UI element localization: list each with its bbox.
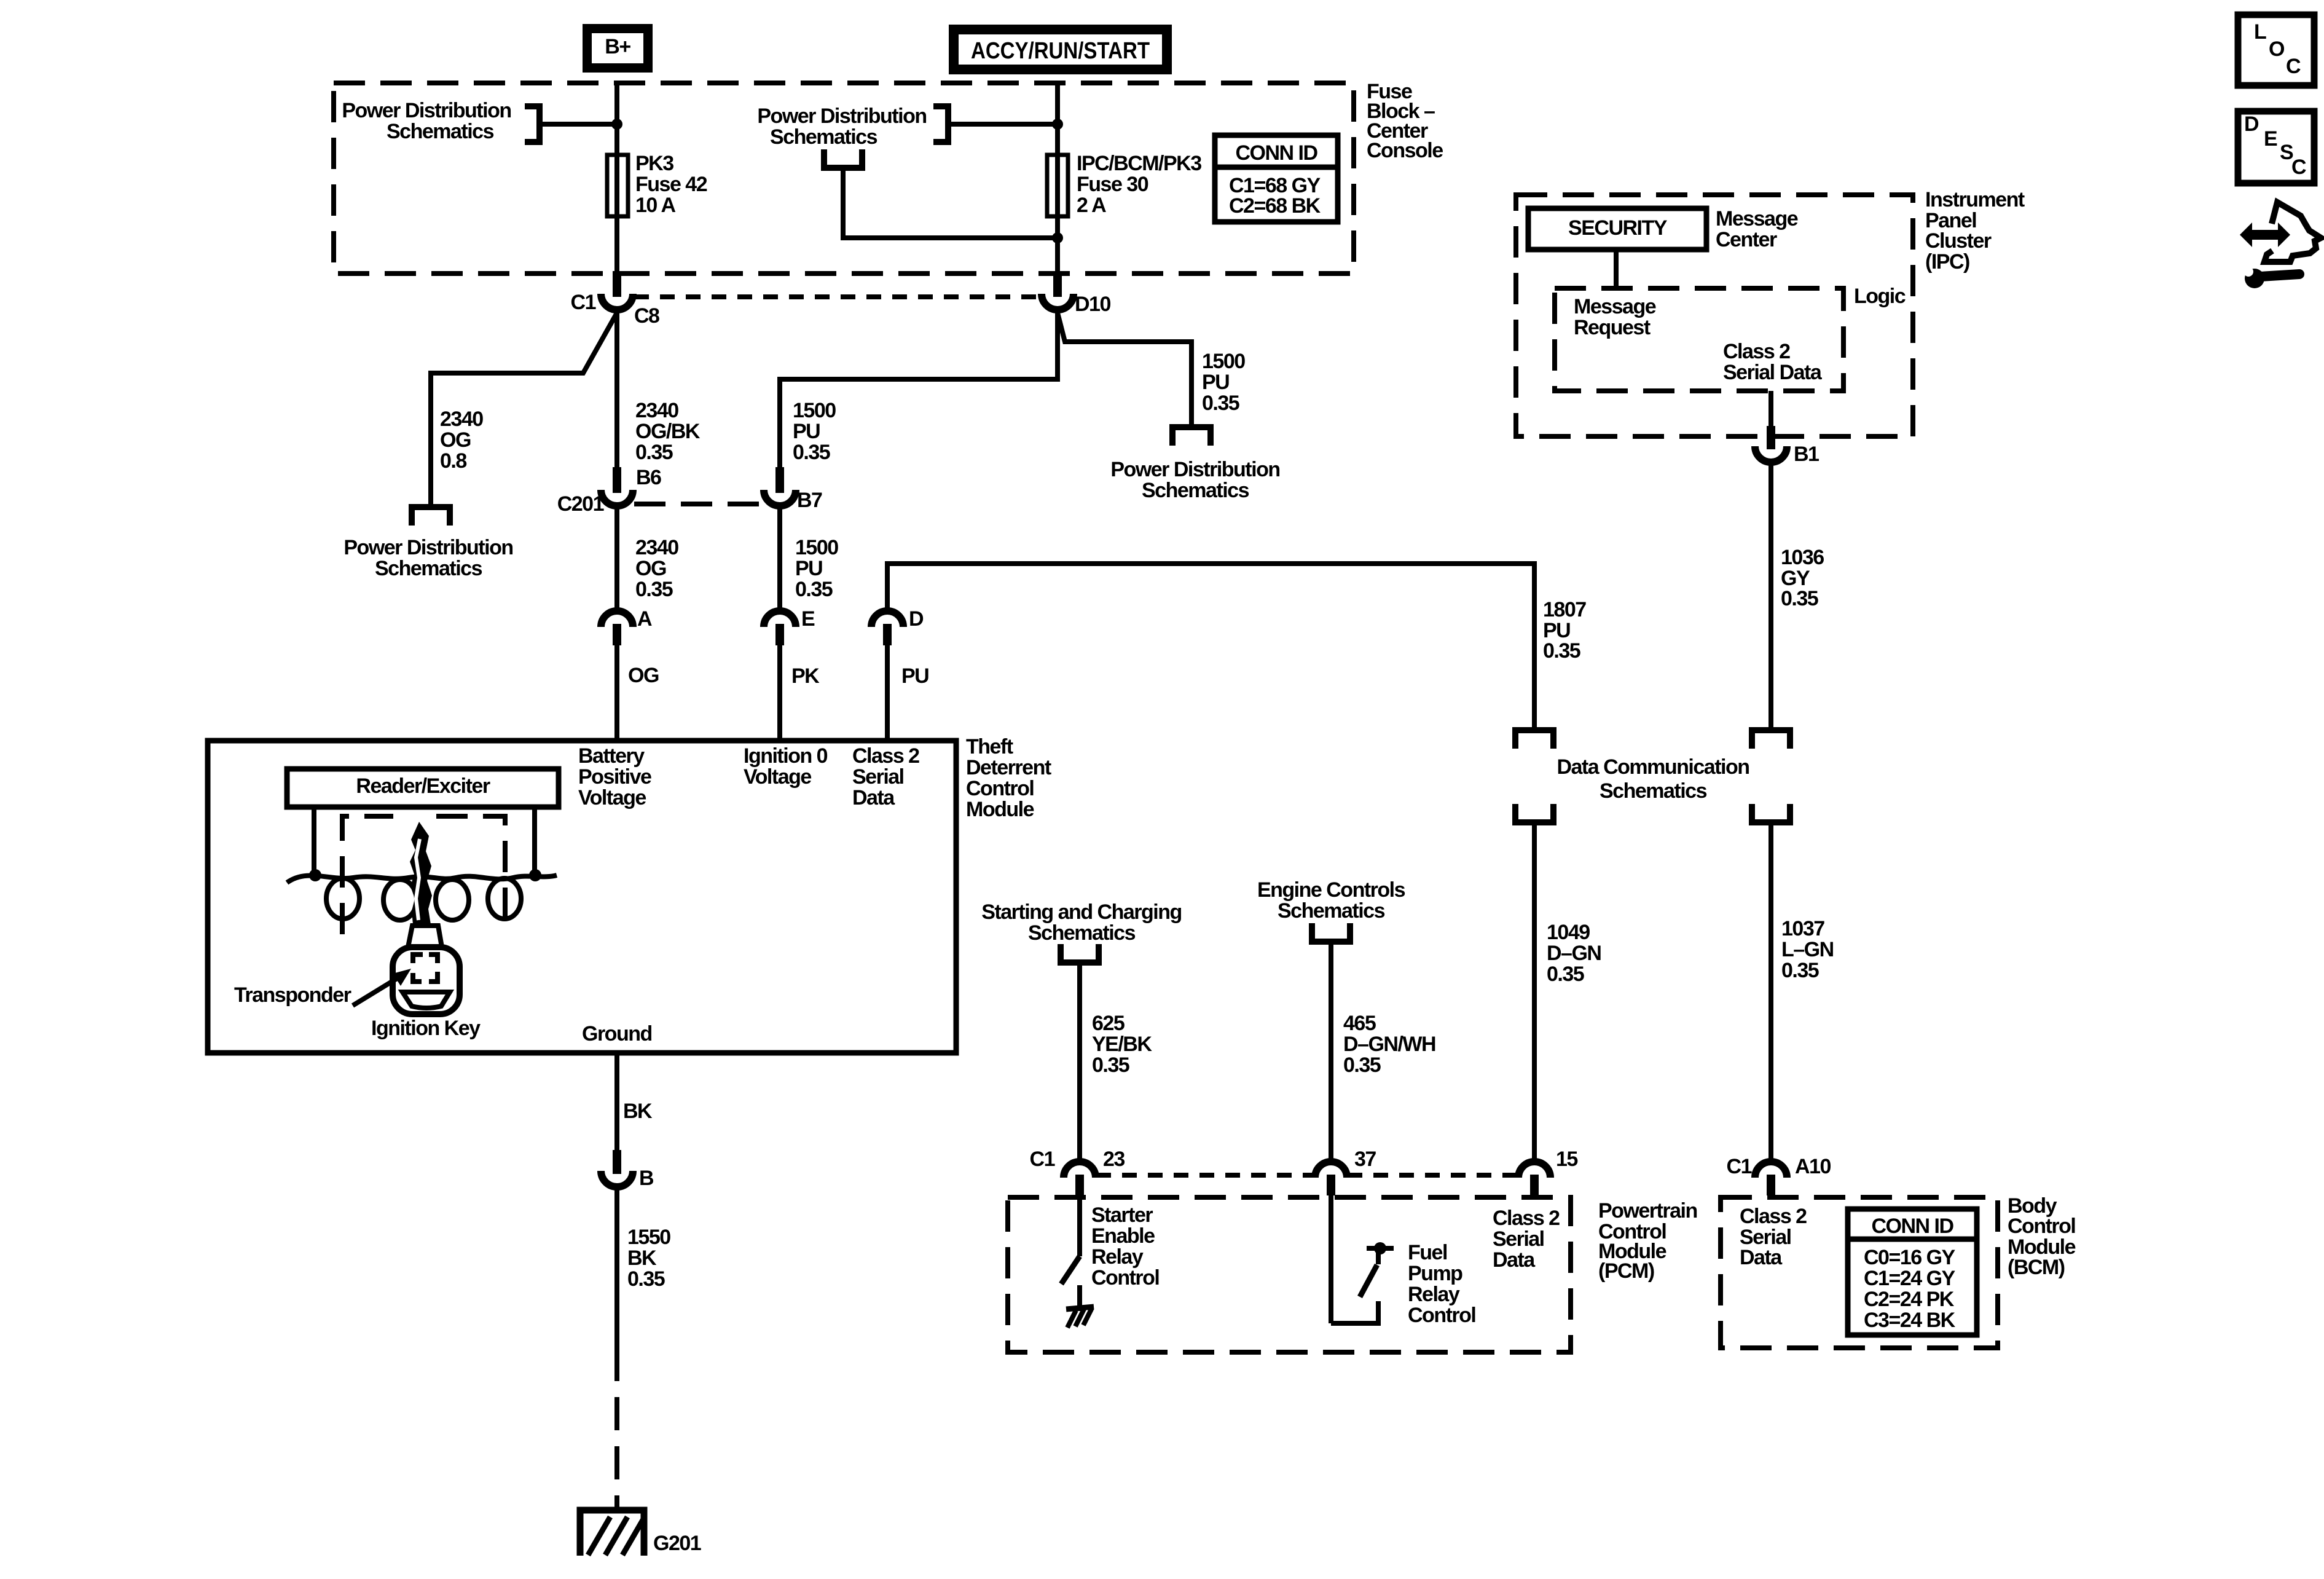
LOC legend box [2238, 15, 2314, 85]
svg-text:0.35: 0.35 [1547, 963, 1584, 986]
coil loop 1 [326, 878, 359, 919]
label 2340 OG/BK 0.35 [635, 399, 701, 464]
svg-text:(BCM): (BCM) [2008, 1256, 2065, 1279]
svg-text:B+: B+ [605, 35, 630, 58]
svg-text:D–GN/WH: D–GN/WH [1343, 1033, 1435, 1056]
svg-text:Control: Control [1091, 1266, 1159, 1290]
svg-text:Data Communication: Data Communication [1557, 755, 1749, 779]
svg-text:PU: PU [795, 557, 822, 580]
svg-text:OG: OG [635, 557, 666, 580]
ground G201 symbol [580, 1510, 645, 1556]
label Fuse Block - Center Console [1367, 80, 1443, 162]
svg-text:BK: BK [623, 1100, 653, 1123]
label 2340 OG 0.35 [635, 536, 678, 601]
wire to PCM 23 [1077, 963, 1082, 1162]
PCM dashed box [1008, 1197, 1571, 1352]
svg-text:1550: 1550 [627, 1226, 670, 1249]
svg-text:Enable: Enable [1091, 1224, 1155, 1248]
label Class 2 Serial Data (TDCM) [852, 744, 919, 809]
label Message Request [1574, 295, 1656, 339]
svg-text:E: E [801, 607, 815, 631]
label 1049 D-GN 0.35 [1547, 921, 1601, 986]
svg-text:C2=24 PK: C2=24 PK [1864, 1288, 1955, 1311]
starter enable relay switch [1061, 1195, 1080, 1311]
off-page bracket top right (1036) [1752, 730, 1790, 749]
svg-text:PK: PK [791, 664, 820, 688]
junction node left coil [309, 869, 321, 881]
svg-text:0.8: 0.8 [440, 449, 466, 473]
logic dashed box [1555, 288, 1843, 391]
svg-text:Powertrain: Powertrain [1598, 1199, 1697, 1223]
svg-text:Deterrent: Deterrent [966, 756, 1051, 779]
label Data Communication Schematics [1557, 755, 1749, 803]
svg-text:Serial: Serial [1493, 1227, 1544, 1251]
svg-text:15: 15 [1556, 1148, 1577, 1171]
connector B [601, 1150, 633, 1187]
ignition key neck [408, 926, 442, 947]
svg-text:Schematics: Schematics [387, 120, 494, 143]
label Instrument Panel Cluster (IPC) [1925, 188, 2025, 274]
svg-text:A10: A10 [1795, 1155, 1831, 1178]
svg-text:ACCY/RUN/START: ACCY/RUN/START [971, 38, 1150, 64]
off-page bracket starting [1061, 944, 1099, 963]
svg-text:0.35: 0.35 [1343, 1053, 1381, 1077]
wire left drop from Reader/Exciter [312, 807, 316, 875]
svg-text:Schematics: Schematics [770, 125, 877, 149]
svg-text:Schematics: Schematics [1278, 899, 1385, 923]
connector C201 pin B6 [601, 467, 633, 506]
wire B down [614, 1187, 619, 1348]
svg-text:Power Distribution: Power Distribution [1110, 458, 1279, 481]
svg-text:Module: Module [966, 798, 1034, 821]
svg-text:Battery: Battery [578, 744, 645, 768]
svg-text:OG: OG [440, 428, 471, 452]
label Class 2 Serial Data (PCM) [1493, 1207, 1560, 1272]
wire B+ down to C8 [614, 82, 619, 276]
svg-text:E: E [2264, 127, 2277, 151]
connector 37 [1315, 1162, 1347, 1195]
label 1036 GY 0.35 [1781, 546, 1824, 610]
wire bracket to BCM A10 [1769, 822, 1773, 1161]
svg-text:Console: Console [1367, 139, 1443, 162]
label 1807 PU 0.35 [1543, 598, 1586, 663]
svg-text:0.35: 0.35 [1781, 587, 1818, 610]
svg-text:C: C [2291, 156, 2306, 179]
svg-text:Transponder: Transponder [234, 983, 351, 1007]
Instrument Panel Cluster dashed box [1516, 195, 1913, 436]
svg-text:Class 2: Class 2 [1493, 1207, 1560, 1230]
connector D [871, 611, 903, 645]
ignition key blade [410, 822, 432, 924]
label 465 D-GN/WH 0.35 [1343, 1012, 1435, 1077]
wire SECURITY to logic box [1614, 250, 1619, 288]
svg-text:B: B [639, 1167, 654, 1190]
svg-text:0.35: 0.35 [635, 578, 673, 601]
svg-text:A: A [637, 607, 652, 631]
junction node upper [1052, 119, 1063, 130]
svg-text:Relay: Relay [1408, 1283, 1460, 1306]
svg-text:2340: 2340 [635, 536, 678, 559]
SECURITY indicator box [1528, 208, 1706, 250]
svg-text:Relay: Relay [1091, 1245, 1144, 1269]
svg-text:465: 465 [1343, 1012, 1376, 1035]
label 1037 L-GN 0.35 [1781, 917, 1834, 982]
svg-text:0.35: 0.35 [1092, 1053, 1129, 1077]
junction node right coil [529, 869, 541, 881]
BCM dashed box [1721, 1197, 1998, 1348]
svg-text:Schematics: Schematics [1142, 479, 1249, 502]
fuse block dashed box [334, 83, 1354, 274]
off-page bracket top left (1807) [1515, 730, 1553, 749]
connector 23 (C1) [1064, 1162, 1096, 1195]
svg-text:(PCM): (PCM) [1598, 1259, 1654, 1283]
svg-text:C2=68 BK: C2=68 BK [1229, 194, 1321, 218]
service icon arrow [2240, 222, 2290, 247]
svg-text:1500: 1500 [1202, 350, 1245, 373]
svg-text:L: L [2254, 20, 2266, 44]
svg-text:Voltage: Voltage [744, 765, 811, 789]
svg-text:SECURITY: SECURITY [1568, 216, 1668, 240]
label Power Distribution Schematics (lower left) [343, 536, 512, 580]
label Battery Positive Voltage [578, 744, 651, 809]
svg-text:Starter: Starter [1091, 1203, 1153, 1227]
svg-text:CONN ID: CONN ID [1871, 1215, 1953, 1238]
svg-text:1049: 1049 [1547, 921, 1590, 944]
wire A to TDCM [614, 644, 619, 741]
service icon wrench [2244, 267, 2299, 288]
wire to PCM 37 [1329, 942, 1333, 1162]
junction node on B+ wire [611, 119, 622, 130]
svg-text:Message: Message [1574, 295, 1656, 318]
svg-text:Power Distribution: Power Distribution [342, 99, 511, 122]
label Class 2 Serial Data (IPC) [1723, 340, 1823, 384]
wire E to TDCM [777, 644, 782, 741]
svg-text:Fuse 30: Fuse 30 [1077, 173, 1148, 196]
svg-text:C8: C8 [634, 304, 659, 328]
connector B7 [764, 467, 796, 506]
coil loop 2 [383, 880, 417, 920]
svg-text:23: 23 [1103, 1148, 1125, 1171]
svg-text:Instrument: Instrument [1925, 188, 2025, 211]
label PK3 Fuse 42 10 A [635, 152, 707, 217]
coil loop 4 [488, 878, 521, 919]
label Fuel Pump Relay Control [1408, 1241, 1475, 1327]
svg-text:Message: Message [1716, 207, 1798, 230]
in-line connector dotted line C8 to D10 [634, 294, 1040, 299]
CONN ID table (BCM) [1848, 1209, 1977, 1335]
svg-text:G201: G201 [653, 1532, 701, 1555]
fuse F42 PK3 [607, 155, 628, 216]
svg-text:Logic: Logic [1854, 285, 1906, 308]
svg-text:B7: B7 [797, 489, 822, 512]
svg-text:0.35: 0.35 [793, 441, 830, 464]
transponder arrow [353, 979, 397, 1006]
svg-text:Engine Controls: Engine Controls [1257, 878, 1405, 902]
svg-text:625: 625 [1092, 1012, 1125, 1035]
CONN ID table (fuse block) [1215, 135, 1338, 222]
Reader/Exciter box [287, 769, 559, 807]
svg-text:C0=16 GY: C0=16 GY [1864, 1246, 1956, 1269]
svg-text:0.35: 0.35 [1202, 392, 1239, 415]
svg-text:YE/BK: YE/BK [1092, 1033, 1152, 1056]
svg-text:PU: PU [1202, 371, 1229, 394]
wire C201 to conn A [614, 506, 619, 612]
svg-text:PU: PU [793, 420, 820, 443]
Theft Deterrent Control Module box [208, 741, 956, 1053]
svg-text:Data: Data [852, 786, 895, 809]
wire TDCM ground down [614, 1053, 619, 1152]
transponder dashed square [413, 955, 438, 982]
svg-text:L–GN: L–GN [1781, 938, 1834, 961]
off-page bracket bottom left (1049) [1515, 804, 1553, 822]
svg-text:2340: 2340 [635, 399, 678, 422]
svg-text:Ground: Ground [582, 1022, 652, 1045]
key head slot [402, 992, 450, 1008]
label Ignition 0 Voltage [744, 744, 828, 789]
svg-text:(IPC): (IPC) [1925, 250, 1969, 274]
wire bracket down and right to ACCY wire [843, 168, 1058, 238]
svg-text:BK: BK [627, 1246, 657, 1270]
svg-text:0.35: 0.35 [627, 1267, 665, 1291]
svg-text:Voltage: Voltage [578, 786, 646, 809]
svg-text:0.35: 0.35 [635, 441, 673, 464]
label 625 YE/BK 0.35 [1092, 1012, 1152, 1077]
off-page bracket below label [824, 149, 862, 168]
fuse F30 IPC/BCM/PK3 [1047, 155, 1068, 216]
svg-text:0.35: 0.35 [795, 578, 833, 601]
svg-text:D10: D10 [1075, 293, 1110, 316]
wire D to TDCM [885, 644, 890, 741]
svg-text:Class 2: Class 2 [1740, 1205, 1807, 1228]
wire C8 to C201 [614, 310, 619, 470]
svg-text:OG: OG [628, 664, 659, 687]
svg-text:Class 2: Class 2 [852, 744, 919, 768]
dashed in-line connector line C201 to B7 [634, 502, 764, 506]
svg-text:PK3: PK3 [635, 152, 673, 175]
dashed wire to G201 [614, 1348, 619, 1508]
connector A [601, 611, 633, 645]
svg-text:Data: Data [1740, 1246, 1783, 1269]
junction node lower [1052, 232, 1063, 243]
svg-text:C1: C1 [1030, 1148, 1055, 1171]
wire right drop from Reader/Exciter [532, 807, 537, 875]
coil loop 3 [436, 880, 469, 920]
svg-text:Pump: Pump [1408, 1262, 1462, 1285]
svg-text:Schematics: Schematics [1028, 921, 1136, 945]
wire conn D up and right to data comm bracket [887, 564, 1534, 728]
label 2340 OG 0.8 [440, 408, 483, 473]
svg-text:O: O [2269, 37, 2285, 61]
svg-text:Theft: Theft [966, 735, 1013, 758]
off-page bracket 2340 OG 0.8 [412, 507, 450, 526]
svg-text:Fuse 42: Fuse 42 [635, 173, 707, 196]
svg-text:Positive: Positive [578, 765, 651, 789]
svg-text:Center: Center [1716, 228, 1777, 251]
svg-text:D: D [2244, 112, 2259, 136]
label Powertrain Control Module (PCM) [1598, 1199, 1697, 1283]
svg-text:Power Distribution: Power Distribution [757, 104, 926, 128]
svg-text:1500: 1500 [795, 536, 838, 559]
off-page bracket right of label [933, 106, 948, 142]
svg-text:Schematics: Schematics [1600, 779, 1707, 803]
label Engine Controls Schematics [1257, 878, 1405, 923]
svg-text:Power Distribution: Power Distribution [343, 536, 512, 559]
svg-text:Control: Control [2008, 1215, 2075, 1238]
wire logic to B1 [1769, 391, 1773, 428]
connector B1 [1755, 426, 1787, 462]
svg-text:C: C [2286, 55, 2301, 78]
svg-text:C201: C201 [557, 492, 604, 516]
label Power Distribution Schematics (right) [1110, 458, 1279, 502]
svg-text:0.35: 0.35 [1781, 959, 1819, 982]
svg-text:Class 2: Class 2 [1723, 340, 1790, 363]
internal ground (starter) [1066, 1307, 1094, 1328]
label Theft Deterrent Control Module [966, 735, 1051, 821]
svg-text:IPC/BCM/PK3: IPC/BCM/PK3 [1077, 152, 1201, 175]
svg-text:1500: 1500 [793, 399, 836, 422]
label 1500 PU 0.35 (right branch) [1202, 350, 1245, 415]
off-page bracket 1500 PU [1172, 427, 1211, 446]
label 1500 PU 0.35 (B7 wire) [793, 399, 836, 464]
wire ACCY down to D10 [1055, 82, 1060, 276]
svg-text:B6: B6 [636, 466, 661, 489]
off-page bracket bottom right (1037) [1752, 804, 1790, 822]
exciter dashed box [342, 816, 505, 934]
wire D10 branch right to off page [1058, 313, 1191, 427]
coil wavy wire [287, 875, 557, 883]
svg-text:Data: Data [1493, 1248, 1536, 1272]
wire B7 to conn E [777, 506, 782, 612]
svg-text:C3=24 BK: C3=24 BK [1864, 1309, 1956, 1332]
svg-text:1037: 1037 [1781, 917, 1824, 940]
svg-text:C1: C1 [1727, 1155, 1752, 1178]
svg-text:Fuel: Fuel [1408, 1241, 1447, 1264]
off-page bracket (left) [525, 106, 540, 142]
label 1500 PU 0.35 (below B7) [795, 536, 838, 601]
svg-text:10 A: 10 A [635, 194, 676, 217]
connector C8 (C1) [601, 271, 633, 310]
PCM dotted pin line right [1348, 1173, 1518, 1178]
svg-text:2 A: 2 A [1077, 194, 1106, 217]
svg-text:B1: B1 [1794, 443, 1819, 466]
terminal ACCY/RUN/START [949, 25, 1172, 74]
svg-text:Reader/Exciter: Reader/Exciter [356, 774, 490, 798]
terminal B+ [583, 24, 653, 73]
label Starter Enable Relay Control [1091, 1203, 1159, 1290]
label Body Control Module (BCM) [2008, 1194, 2076, 1279]
PCM dotted pin line left [1096, 1173, 1314, 1178]
svg-text:Serial Data: Serial Data [1723, 361, 1823, 384]
wire bracket to PCM 15 [1532, 822, 1537, 1162]
svg-text:Schematics: Schematics [375, 557, 482, 580]
label IPC/BCM/PK3 Fuse 30 2 A [1077, 152, 1201, 217]
connector E [764, 611, 796, 645]
wire bracket to B+ wire [542, 122, 617, 127]
wire bracket to ACCY wire [951, 122, 1058, 127]
svg-text:D–GN: D–GN [1547, 942, 1601, 965]
svg-text:PU: PU [901, 664, 928, 688]
label Class 2 Serial Data (BCM) [1740, 1205, 1807, 1269]
svg-text:Ignition Key: Ignition Key [371, 1017, 481, 1040]
ignition key head [393, 947, 460, 1014]
service icon vehicle outline [2264, 202, 2321, 262]
svg-text:OG/BK: OG/BK [635, 420, 701, 443]
DESC legend box [2238, 111, 2314, 183]
svg-text:Control: Control [1408, 1304, 1475, 1327]
svg-text:0.35: 0.35 [1543, 639, 1580, 663]
svg-text:C1: C1 [571, 291, 596, 314]
fuel pump relay switch [1331, 1195, 1394, 1323]
svg-text:Cluster: Cluster [1925, 229, 1992, 253]
connector A10 (C1) [1755, 1162, 1787, 1195]
svg-text:CONN ID: CONN ID [1235, 141, 1317, 165]
wire B1 down to bracket [1769, 463, 1773, 728]
svg-text:C1=24 GY: C1=24 GY [1864, 1267, 1956, 1290]
svg-text:Request: Request [1574, 316, 1651, 339]
wire diagonal branch from C8 [431, 313, 617, 507]
label Power Distribution Schematics (top left) [342, 99, 511, 143]
svg-text:37: 37 [1354, 1148, 1376, 1171]
label Power Distribution Schematics (fuse block) [757, 104, 926, 149]
svg-text:Serial: Serial [852, 765, 904, 789]
connector 15 [1518, 1162, 1550, 1195]
svg-text:1036: 1036 [1781, 546, 1824, 569]
svg-text:2340: 2340 [440, 408, 483, 431]
svg-text:Starting and Charging: Starting and Charging [981, 900, 1182, 924]
label Starting and Charging Schematics [981, 900, 1182, 945]
connector D10 [1042, 271, 1074, 310]
svg-text:D: D [909, 607, 924, 631]
wire D10 down then left to B7 [780, 310, 1058, 472]
off-page bracket engine [1312, 923, 1350, 942]
svg-text:Control: Control [966, 777, 1034, 800]
label Message Center [1716, 207, 1798, 251]
svg-text:1807: 1807 [1543, 598, 1586, 621]
label 1550 BK 0.35 [627, 1226, 670, 1291]
svg-text:Ignition 0: Ignition 0 [744, 744, 828, 768]
